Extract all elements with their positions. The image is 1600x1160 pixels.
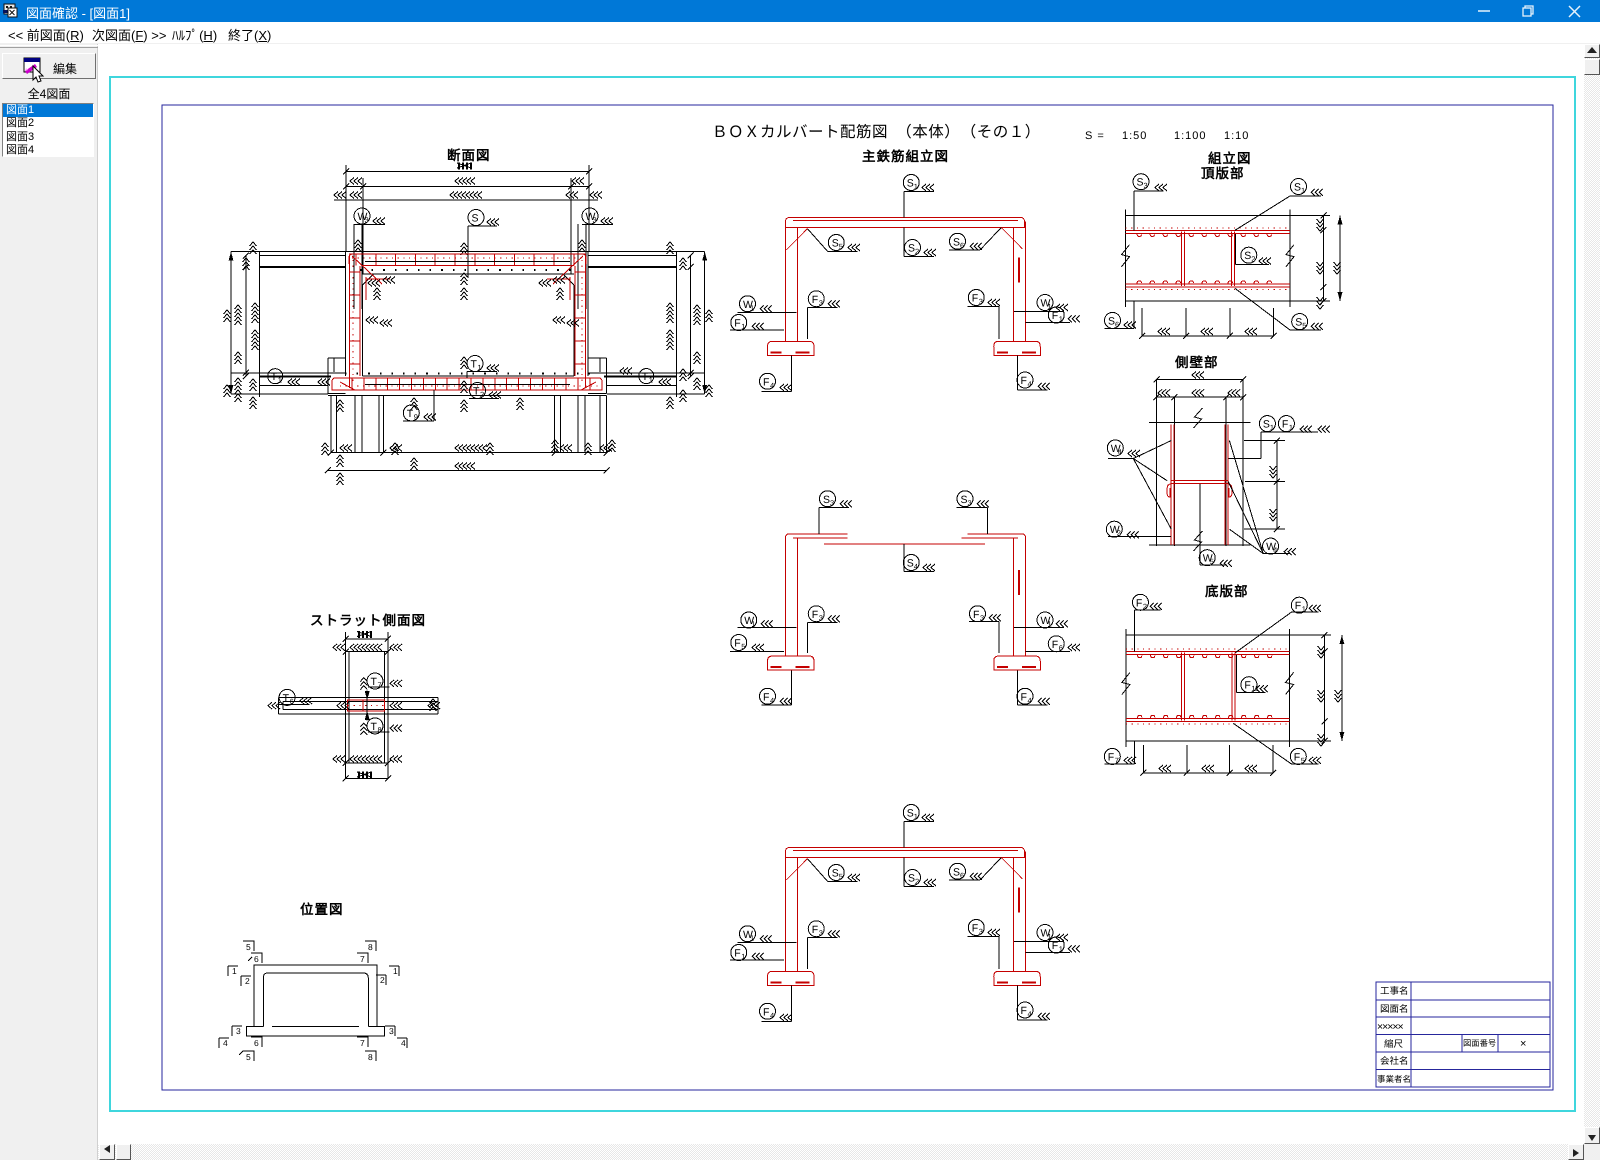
頂版部 label S5 bottom-right (1235, 288, 1323, 330)
svg-text:F: F (763, 1006, 769, 1018)
label S2 center (904, 228, 936, 257)
label S center (461, 210, 500, 279)
side wall right dims (1244, 438, 1285, 533)
frame2 label F4 left (760, 670, 793, 705)
side wall label W2 left-bottom (1106, 521, 1171, 538)
svg-text:1: 1 (478, 363, 482, 372)
svg-text:T: T (473, 386, 480, 398)
svg-text:S: S (1263, 419, 1270, 431)
frame2 label W1 left (738, 612, 797, 629)
svg-text:F: F (972, 293, 978, 305)
right footing (588, 358, 607, 393)
svg-text:S: S (832, 868, 839, 880)
label S1 (903, 805, 934, 848)
frame2 label S4 center (903, 544, 935, 572)
edit icon (24, 58, 40, 74)
left foot (768, 341, 815, 355)
svg-text:1:50: 1:50 (1122, 130, 1147, 142)
svg-text:3: 3 (830, 498, 834, 507)
svg-text:F: F (1282, 419, 1288, 431)
under-footing verticals and bottom dims (322, 395, 616, 485)
break marks (1122, 673, 1130, 695)
svg-text:F: F (1021, 691, 1027, 703)
svg-text:S: S (908, 243, 915, 255)
label F4 right (1017, 985, 1050, 1020)
label F3 left (808, 921, 841, 969)
frame2 label W1 right (1014, 612, 1068, 629)
right foot (994, 971, 1041, 985)
label F4 right (1017, 355, 1050, 390)
slab outer lines (1126, 209, 1291, 307)
label S5 left (808, 229, 861, 252)
svg-text:×: × (1520, 1038, 1526, 1050)
title bar (0, 0, 1600, 22)
svg-text:3: 3 (365, 216, 369, 225)
svg-text:T: T (271, 371, 278, 383)
strut top dims (333, 631, 402, 655)
black dot rows on slabs (360, 269, 575, 271)
svg-text:4: 4 (770, 696, 774, 705)
svg-text:S: S (961, 494, 968, 506)
label W3 left (354, 208, 385, 225)
svg-text:S: S (907, 558, 914, 570)
frame2 label F4 right (1017, 670, 1050, 705)
svg-text:S: S (832, 238, 839, 250)
red rebar left wall (350, 256, 361, 388)
svg-text:S =: S = (1085, 130, 1105, 142)
svg-text:S: S (823, 494, 830, 506)
svg-text:F: F (734, 948, 740, 960)
portal frame beam (786, 848, 1026, 858)
svg-text:1: 1 (1270, 423, 1274, 432)
svg-text:T: T (471, 359, 478, 371)
cross-section top dimension lines (334, 163, 602, 275)
left panel (0, 44, 98, 1160)
svg-text:2: 2 (915, 247, 919, 256)
svg-text:工事名: 工事名 (1380, 985, 1409, 997)
svg-text:S: S (907, 808, 914, 820)
頂版部 label S3 top-left (1133, 174, 1167, 231)
side wall outline (1149, 379, 1250, 551)
svg-text:S: S (908, 873, 915, 885)
left dimension verticals (224, 242, 259, 409)
left foot (768, 971, 815, 985)
svg-text:組立図: 組立図 (1208, 151, 1252, 166)
label T9 below slab (403, 390, 436, 422)
svg-text:F: F (1136, 597, 1142, 609)
svg-text:4: 4 (770, 1011, 774, 1020)
svg-text:断面図: 断面図 (447, 148, 491, 163)
side wall top dims (1154, 372, 1247, 401)
頂版部 right dims (1290, 212, 1343, 309)
label S6 right (949, 228, 1002, 251)
svg-text:×××××: ××××× (1377, 1021, 1404, 1033)
strut label T8 bottom (367, 718, 402, 735)
label F1 right (1026, 937, 1081, 954)
red stirrups (1182, 653, 1235, 721)
底版部 right dims (1290, 632, 1345, 746)
frame2 right foot (994, 656, 1041, 670)
svg-text:1: 1 (1301, 186, 1305, 195)
svg-text:5: 5 (1302, 321, 1306, 330)
svg-text:7: 7 (1115, 756, 1119, 765)
svg-text:7: 7 (360, 1038, 365, 1048)
location outline (246, 965, 384, 1036)
svg-text:1:100: 1:100 (1174, 130, 1207, 142)
svg-text:6: 6 (254, 1038, 259, 1048)
label F3 right (968, 290, 1001, 340)
svg-text:6: 6 (1115, 320, 1119, 329)
svg-text:4: 4 (914, 562, 918, 571)
close button (1569, 6, 1580, 17)
底版部 label F5 bottom-right (1233, 723, 1321, 765)
svg-text:8: 8 (368, 942, 373, 952)
svg-text:主鉄筋組立図: 主鉄筋組立図 (862, 149, 949, 164)
svg-text:3: 3 (1144, 181, 1148, 190)
svg-text:5: 5 (246, 1052, 251, 1062)
svg-text:F: F (763, 691, 769, 703)
box culvert outline (346, 252, 588, 377)
label W1 left (738, 296, 797, 313)
svg-text:縮尺: 縮尺 (1384, 1038, 1404, 1050)
frame2 label F6 right (1026, 636, 1081, 653)
svg-text:F: F (972, 923, 978, 935)
strut beam (278, 697, 438, 713)
svg-text:3: 3 (979, 927, 983, 936)
svg-text:F: F (1052, 940, 1058, 952)
svg-text:6: 6 (254, 954, 259, 964)
svg-text:F: F (1295, 600, 1301, 612)
red chords (1126, 649, 1290, 724)
svg-text:S: S (907, 178, 914, 190)
svg-text:T: T (283, 692, 290, 704)
svg-text:7: 7 (378, 681, 382, 690)
svg-text:S: S (953, 866, 960, 878)
side wall label W4 right (1228, 441, 1296, 556)
label F1 right (1026, 307, 1081, 324)
svg-text:3: 3 (819, 613, 823, 622)
svg-text:1: 1 (1289, 423, 1293, 432)
svg-text:S: S (953, 236, 960, 248)
svg-text:2: 2 (380, 975, 385, 985)
svg-text:事業者名: 事業者名 (1377, 1074, 1411, 1084)
svg-text:3: 3 (593, 216, 597, 225)
label F1 left (730, 945, 784, 962)
svg-text:5: 5 (839, 872, 843, 881)
svg-text:4: 4 (223, 1038, 228, 1048)
side wall red bars (1167, 425, 1232, 545)
svg-text:F: F (1052, 639, 1058, 651)
break marks (1122, 245, 1130, 267)
svg-text:F: F (1294, 751, 1300, 763)
svg-text:1: 1 (232, 966, 237, 976)
red hooks (1137, 233, 1271, 284)
svg-text:F: F (1052, 310, 1058, 322)
strut red core (347, 700, 384, 711)
red corner bars (366, 277, 570, 300)
svg-text:4: 4 (401, 1038, 406, 1048)
svg-text:T: T (642, 371, 649, 383)
svg-text:4: 4 (1028, 380, 1032, 389)
strut bottom dims (333, 756, 402, 782)
strut column (346, 639, 388, 779)
side wall label W5 bottom-center (1199, 484, 1232, 567)
svg-text:F: F (734, 318, 740, 330)
svg-text:T: T (371, 721, 378, 733)
label F3 left (808, 291, 841, 339)
label W1 right (1014, 925, 1068, 942)
red hooks (1137, 655, 1271, 719)
strut label T6 left (278, 689, 312, 706)
slab outer lines (1126, 629, 1290, 747)
svg-text:会社名: 会社名 (1380, 1055, 1409, 1067)
label S2 center (904, 858, 936, 887)
svg-text:2: 2 (480, 390, 484, 399)
svg-text:1: 1 (750, 303, 754, 312)
svg-text:7: 7 (360, 954, 365, 964)
strut center pin (360, 678, 369, 735)
label F4 left (760, 355, 793, 391)
svg-text:底版部: 底版部 (1205, 584, 1249, 599)
svg-text:3: 3 (980, 613, 984, 622)
svg-text:8: 8 (378, 725, 382, 734)
svg-text:側壁部: 側壁部 (1174, 355, 1219, 370)
svg-text:ＢＯＸカルバート配筋図 （本体） （その１）: ＢＯＸカルバート配筋図 （本体） （その１） (712, 123, 1041, 141)
svg-text:3: 3 (968, 498, 972, 507)
svg-text:8: 8 (368, 1052, 373, 1062)
svg-text:4: 4 (1028, 1010, 1032, 1019)
parapet wall stubs (354, 224, 586, 309)
label F1 left (730, 315, 784, 332)
svg-text:4: 4 (1028, 696, 1032, 705)
location section markers (219, 941, 407, 1062)
red rebar right wall (575, 256, 586, 388)
頂版部 label S2 middle (1236, 234, 1271, 265)
svg-text:2: 2 (915, 877, 919, 886)
svg-text:F: F (763, 376, 769, 388)
svg-text:頂版部: 頂版部 (1201, 166, 1245, 181)
navy drawing frame (162, 105, 1553, 1090)
svg-text:1: 1 (914, 812, 918, 821)
svg-text:3: 3 (819, 928, 823, 937)
svg-text:F: F (1108, 751, 1114, 763)
title block table (1376, 982, 1550, 1087)
svg-text:S: S (1137, 177, 1144, 189)
svg-text:F: F (812, 924, 818, 936)
svg-text:4: 4 (1118, 447, 1122, 456)
svg-text:F: F (1021, 375, 1027, 387)
svg-text:1: 1 (393, 966, 398, 976)
restore button (1523, 6, 1533, 16)
svg-text:図面番号: 図面番号 (1463, 1038, 1496, 1048)
svg-text:S: S (472, 213, 479, 225)
svg-text:2: 2 (245, 976, 250, 986)
svg-text:5: 5 (839, 242, 843, 251)
svg-text:2: 2 (1251, 255, 1255, 264)
portal frame left leg (786, 222, 798, 342)
svg-text:3: 3 (389, 1026, 394, 1036)
portal frame right leg (1014, 222, 1026, 342)
frame2 mid bar (824, 543, 985, 545)
red rebar bottom slab (332, 378, 603, 390)
svg-text:S: S (1244, 250, 1251, 262)
menu bar (0, 22, 1600, 44)
side wall label W4 left-top (1107, 440, 1171, 529)
底版部 label F2 top-left (1132, 594, 1162, 651)
svg-text:T: T (407, 408, 414, 420)
svg-text:9: 9 (414, 412, 418, 421)
label S5 left (808, 859, 861, 882)
label W1 right (1014, 295, 1068, 312)
svg-text:F: F (734, 638, 740, 650)
right foot (994, 341, 1041, 355)
strut side chevrons (268, 699, 440, 711)
app icon (3, 4, 17, 17)
frame2 label F3 right (969, 606, 1001, 653)
cross-section inner labels (366, 273, 579, 327)
頂版部 label S6 bottom-left (1105, 301, 1137, 329)
frame2 left foot (768, 656, 815, 670)
label T left wing (268, 369, 330, 386)
frame2 left leg (786, 538, 798, 656)
svg-text:5: 5 (1301, 756, 1305, 765)
label T1 bottom center (461, 356, 500, 378)
label T2 on slab (461, 381, 502, 412)
svg-text:5: 5 (246, 942, 251, 952)
right dimension verticals (667, 242, 713, 409)
portal frame left leg (786, 852, 798, 972)
title block labels (1377, 985, 1526, 1084)
left wing wall (231, 252, 346, 397)
svg-text:1: 1 (750, 933, 754, 942)
svg-text:4: 4 (770, 381, 774, 390)
label F3 right (968, 920, 1001, 970)
portal frame beam (786, 218, 1026, 228)
svg-text:1: 1 (649, 376, 653, 385)
frame2 label S3 right (956, 491, 989, 534)
svg-text:T: T (371, 676, 378, 688)
svg-text:S: S (1294, 182, 1301, 194)
svg-text:3: 3 (819, 298, 823, 307)
strut label T7 top (367, 673, 402, 690)
frame2 label F3 left (808, 606, 841, 653)
left footing (328, 358, 607, 395)
portal frame right leg (1014, 852, 1026, 972)
label S1 (903, 175, 934, 218)
svg-text:3: 3 (979, 297, 983, 306)
label S6 right (949, 858, 1002, 881)
mouse cursor (33, 66, 43, 82)
svg-text:図面名: 図面名 (1380, 1003, 1409, 1015)
底版部 label F7 bottom-left (1104, 741, 1136, 765)
portal frame 2 beam segments (786, 534, 1026, 544)
svg-text:F: F (812, 609, 818, 621)
label T right wing (620, 368, 671, 386)
side wall labels S1 F1 top-right (1228, 416, 1330, 459)
底版部 label F1 top-right (1235, 597, 1321, 653)
corner braces (786, 229, 807, 250)
minimize button (1478, 10, 1490, 12)
label W3 right (582, 208, 613, 225)
svg-text:1: 1 (914, 182, 918, 191)
svg-text:1: 1 (278, 376, 282, 385)
svg-text:3: 3 (236, 1026, 241, 1036)
svg-text:ストラット側面図: ストラット側面図 (310, 613, 426, 628)
frame2 label S3 left (819, 491, 852, 534)
vertical scrollbar (1584, 44, 1600, 1144)
svg-text:S: S (1295, 317, 1302, 329)
label W1 left (738, 926, 797, 943)
svg-text:6: 6 (960, 871, 964, 880)
red chords (1126, 228, 1291, 290)
svg-text:位置図: 位置図 (300, 902, 344, 917)
svg-text:5: 5 (741, 642, 745, 651)
right wing wall (588, 252, 705, 397)
底版部 label F11 middle (1236, 655, 1268, 693)
頂版部 bottom dims (1139, 308, 1277, 339)
svg-text:S: S (1108, 315, 1115, 327)
corner braces (786, 859, 807, 880)
svg-text:F: F (1244, 680, 1250, 692)
svg-text:F: F (973, 609, 979, 621)
底版部 bottom dims (1140, 745, 1276, 776)
頂版部 label S1 top-right (1235, 179, 1323, 231)
svg-text:1:10: 1:10 (1224, 130, 1249, 142)
svg-text:2: 2 (1143, 602, 1147, 611)
frame2 label F5 left (730, 635, 784, 652)
svg-text:F: F (1021, 1005, 1027, 1017)
svg-text:6: 6 (960, 241, 964, 250)
red rebar top slab (349, 254, 586, 284)
frame2 right leg (1014, 538, 1026, 656)
label F4 left (760, 985, 793, 1021)
svg-text:F: F (812, 294, 818, 306)
red stirrups (1182, 231, 1235, 286)
